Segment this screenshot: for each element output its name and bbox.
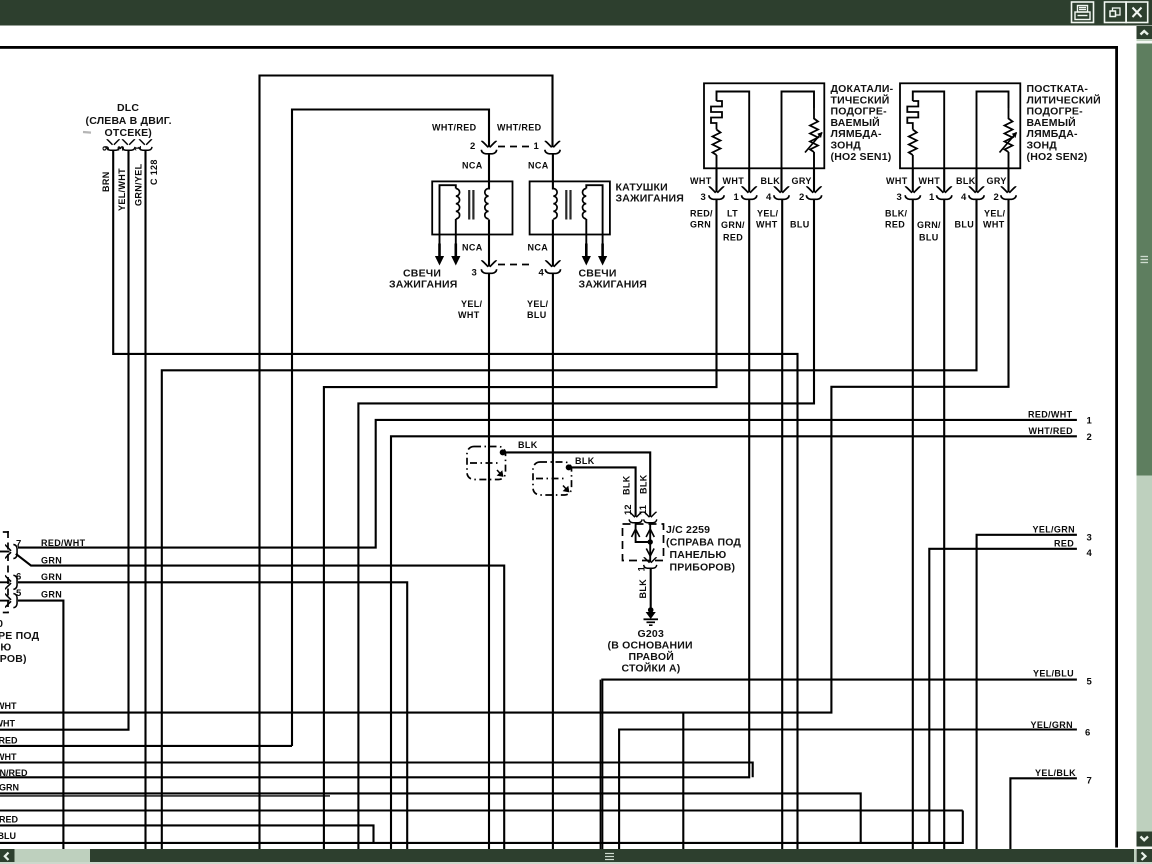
svg-text:G203: G203 [638, 628, 665, 640]
svg-text:BRN: BRN [101, 171, 111, 192]
coil2 core [565, 190, 567, 220]
svg-text:WHT: WHT [886, 176, 908, 186]
sensor2 cell top rail [977, 92, 1009, 169]
svg-text:LT: LT [727, 209, 738, 219]
coil2 HT lead left [582, 244, 591, 266]
wire: DLC pin3 YEL/WHT down to left-edge WHT wire [0, 151, 129, 730]
wire: top rail to coil2 pin1 [260, 76, 553, 850]
svg-text:ЗОНД: ЗОНД [831, 140, 862, 152]
svg-text:ПАНЕЛЬЮ: ПАНЕЛЬЮ [0, 642, 11, 654]
coil1 secondary loop with HT lead wires [440, 185, 456, 246]
wire BRN: DLC pin9 down, right, down at x=797.5 [113, 151, 797, 849]
svg-text:BLU: BLU [527, 310, 547, 320]
svg-text:BLU: BLU [919, 233, 939, 243]
ignition coil 2 (right, mirrored) [530, 181, 684, 266]
wire: vertical x683.3 from WHT wire down [682, 713, 684, 849]
svg-text:NCA: NCA [462, 161, 483, 171]
coil pin2 connector [481, 141, 496, 153]
wire 3 YEL/GRN right edge down at x976.6 [977, 535, 1077, 849]
wire: sensor1 pin3 RED/GRN left at y387 down at x323.9 [324, 200, 717, 849]
sensor1 pin1 connector [742, 187, 757, 199]
sensor2 heater zigzag resistor [909, 130, 917, 156]
pin11 connector [644, 512, 657, 522]
svg-text:(СЛЕВА В ДВИГ.: (СЛЕВА В ДВИГ. [86, 115, 172, 127]
wire BLK from shield1 to J/C2259 pin11 [503, 452, 651, 516]
svg-text:BLK: BLK [622, 475, 632, 495]
sensor1 pin wires below box [715, 168, 717, 192]
svg-text:RED/WHT: RED/WHT [1028, 410, 1073, 420]
svg-text:2: 2 [799, 192, 804, 203]
svg-text:ЗАЖИГАНИЯ: ЗАЖИГАНИЯ [616, 193, 685, 205]
sensor2 variable arrow [1000, 133, 1017, 153]
svg-text:4: 4 [766, 192, 772, 203]
svg-text:(В ЦЕНТРЕ ПОД: (В ЦЕНТРЕ ПОД [0, 630, 40, 642]
svg-text:BLK: BLK [956, 176, 976, 186]
svg-text:GRN: GRN [41, 572, 62, 582]
svg-text:6: 6 [1085, 728, 1090, 739]
spark plug labels and pins 3/4 [389, 243, 647, 321]
svg-text:WHT: WHT [919, 176, 941, 186]
svg-text:ДОКАТАЛИ-: ДОКАТАЛИ- [831, 83, 894, 95]
faint mark [83, 131, 91, 134]
svg-text:ЛЯМБДА-: ЛЯМБДА- [1027, 128, 1078, 140]
window title bar [0, 0, 1152, 26]
svg-text:BLK: BLK [761, 176, 781, 186]
BLK jumper wires [500, 449, 651, 516]
svg-text:DLC: DLC [117, 102, 139, 114]
wire: left-edge RED wire to x292 vertical [0, 745, 292, 747]
svg-text:5: 5 [1087, 677, 1093, 688]
sensor2 heater block resistor [907, 101, 918, 130]
sensor1 variable arrow [805, 133, 822, 153]
coil2 HT lead right [598, 244, 607, 266]
DLC pin 9 connector [107, 140, 120, 150]
pin 7 connector (rotated, wire exits right) [6, 544, 17, 558]
wire: left-edge GRN wire right to x860.7 down to bottom rail [0, 793, 861, 843]
sensor2 heater top rail [913, 92, 944, 169]
schematic page border top [0, 46, 1118, 49]
svg-text:3: 3 [701, 192, 706, 203]
internal wires: pin12 down, right to junction, pin11 down through, out bottom [636, 524, 651, 543]
coil pin3 connector [481, 261, 496, 273]
svg-text:ЗОНД: ЗОНД [1027, 140, 1058, 152]
shielded splice 1 (dash-dot box on YEL/WHT wire) [467, 440, 538, 480]
svg-text:(HO2 SEN1): (HO2 SEN1) [831, 151, 892, 163]
sensor1 heater zigzag resistor [713, 130, 721, 156]
svg-text:WHT/RED: WHT/RED [497, 123, 542, 133]
coil1 left winding [456, 189, 460, 219]
wire: DLC pin1 GRN/YEL down to bottom [144, 151, 146, 849]
DLC pin 3 connector [122, 140, 135, 150]
ground G203 [608, 607, 693, 674]
svg-text:ПРАВОЙ: ПРАВОЙ [629, 650, 674, 663]
wire: second thin line under GRN wire [0, 795, 330, 797]
svg-text:(HO2 SEN2): (HO2 SEN2) [1027, 151, 1088, 163]
shield2 inner dash [536, 478, 566, 480]
svg-text:WHT: WHT [723, 176, 745, 186]
sensor1 heater: pin3 up through resistors to top rail to pin1 [716, 155, 718, 168]
wire 6 YEL/GRN right edge down at x619.1 [619, 730, 1077, 850]
print button [1072, 2, 1094, 23]
svg-text:YEL/: YEL/ [461, 299, 483, 309]
svg-text:1: 1 [534, 141, 540, 152]
svg-text:1: 1 [637, 566, 648, 572]
svg-text:YEL/GRN: YEL/GRN [1033, 525, 1075, 535]
svg-text:NCA: NCA [462, 243, 483, 253]
svg-text:ОТСЕКЕ): ОТСЕКЕ) [105, 127, 152, 139]
coil2 secondary to box bottom [552, 220, 554, 267]
svg-text:2: 2 [1087, 432, 1092, 443]
svg-text:7: 7 [16, 539, 21, 550]
DLC connector (top left) [83, 102, 172, 211]
svg-text:YEL/BLU: YEL/BLU [1033, 669, 1074, 679]
svg-text:GRN: GRN [690, 220, 711, 230]
svg-text:YEL/: YEL/ [757, 209, 779, 219]
svg-text:GRN: GRN [0, 783, 19, 793]
wire: coil2 spark YEL/BLU down [552, 273, 554, 849]
svg-text:4: 4 [539, 268, 545, 279]
junction dot [648, 539, 653, 544]
wire: left pin6 GRN right to x407.2 down [18, 582, 407, 849]
svg-text:NCA: NCA [528, 161, 549, 171]
wire: sensor2 pin3 BLK/RED straight down [912, 200, 914, 849]
svg-text:GRY: GRY [987, 176, 1007, 186]
wire: companion vertical at x600.4 [599, 680, 601, 849]
svg-text:2: 2 [470, 141, 475, 152]
wire to ground [650, 569, 652, 609]
svg-text:4: 4 [961, 192, 967, 203]
wire pin1 connector to coil [552, 155, 554, 190]
up arrow on pin12 [632, 529, 640, 537]
svg-text:ПОСТКАТА-: ПОСТКАТА- [1027, 83, 1089, 95]
svg-text:GRN/YEL: GRN/YEL [134, 163, 144, 206]
wire: sensor1 pin2 BLU left at y403.4 down at x358.4 [358, 200, 814, 849]
svg-text:WHT: WHT [756, 220, 778, 230]
wire: sensor1 pin4 YEL/WHT straight down [781, 200, 783, 849]
sensor1 pin3 connector [709, 187, 724, 199]
svg-text:GRN: GRN [41, 556, 62, 566]
svg-text:GRY: GRY [792, 176, 812, 186]
sensor1 heater block resistor [711, 101, 722, 130]
svg-text:BLK: BLK [639, 474, 649, 494]
wire: left pin5 GRN right to x63.4 down [18, 601, 63, 849]
pin12 connector [629, 512, 642, 522]
pin 6 connector [6, 575, 17, 589]
sensor2 pin4 connector [969, 187, 984, 199]
sensor2 heater wire [912, 155, 914, 168]
svg-text:ПАНЕЛЬЮ: ПАНЕЛЬЮ [670, 549, 727, 561]
wire: sensor1 pin1 LT GRN/RED down to left-edge N/RED wire [0, 200, 749, 778]
down arrow inside box bottom [646, 549, 654, 557]
coil1 right winding [485, 189, 489, 219]
sensor1 pin2 connector [806, 187, 821, 199]
svg-text:ПОДОГРЕ-: ПОДОГРЕ- [1027, 106, 1084, 118]
svg-text:ПРИБОРОВ): ПРИБОРОВ) [670, 562, 736, 574]
bottom exit connector pin 1 [644, 558, 657, 568]
svg-text:2: 2 [994, 192, 999, 203]
coil pin4 connector [545, 261, 560, 273]
coil1 secondary to box bottom [488, 220, 490, 267]
svg-text:BLU: BLU [955, 220, 975, 230]
svg-text:RED/: RED/ [690, 209, 713, 219]
bottom scrollbar [0, 849, 1152, 864]
svg-text:WHT/RED: WHT/RED [1029, 426, 1074, 436]
coil2 box [530, 181, 610, 234]
svg-text:3: 3 [897, 192, 902, 203]
wire: left-edge RED wire down at x373.5 [0, 825, 374, 843]
shielded splice 2 (dash-dot box on YEL/BLU wire) [533, 456, 595, 495]
svg-text:YEL/BLK: YEL/BLK [1035, 768, 1076, 778]
svg-text:9: 9 [101, 146, 112, 151]
dashed connector boundary [7, 531, 9, 613]
wire 4 RED right edge down at x929.3 to bottom rail [929, 549, 1077, 843]
wire pin2 connector to coil [488, 155, 490, 190]
coil1 HT lead left [435, 244, 444, 266]
coil2 left winding (secondary wire) [553, 189, 557, 219]
coil2 secondary loop with HT lead wires [586, 185, 602, 246]
wire 2 WHT/RED right edge down at x391 [391, 436, 1077, 849]
wire: left-edge WHT wire to x752.7 down to N/RED wire [0, 763, 753, 778]
svg-text:3: 3 [116, 146, 127, 151]
svg-text:6: 6 [16, 572, 21, 583]
svg-text:RED: RED [0, 815, 19, 825]
sensor2 pin1 connector [937, 187, 952, 199]
restore button [1105, 2, 1127, 23]
svg-text:ЛИТИЧЕСКИЙ: ЛИТИЧЕСКИЙ [1027, 93, 1101, 106]
svg-text:WHT: WHT [690, 176, 712, 186]
svg-text:YEL/: YEL/ [984, 209, 1006, 219]
svg-text:ЗАЖИГАНИЯ: ЗАЖИГАНИЯ [389, 279, 458, 291]
sensor1 cell top rail [782, 92, 815, 169]
svg-text:GRN/: GRN/ [917, 220, 941, 230]
sensor2 pin wires below box [912, 168, 914, 192]
svg-text:ЗАЖИГАНИЯ: ЗАЖИГАНИЯ [579, 279, 648, 291]
svg-text:YEL/: YEL/ [527, 299, 549, 309]
shield1 corner arrow [497, 470, 503, 476]
ignition coil 1 (left) [432, 181, 512, 266]
oxygen sensor 2 (HO2 SEN2) [885, 83, 1101, 243]
svg-text:(СПРАВА ПОД: (СПРАВА ПОД [666, 537, 741, 549]
sensor2 cell zigzag [1005, 108, 1013, 152]
sensor1 box [704, 83, 824, 168]
wire: sensor2 pin1 GRN/BLU straight down [943, 200, 945, 849]
right scrollbar [1137, 26, 1152, 864]
svg-text:3: 3 [472, 268, 477, 279]
svg-text:1: 1 [133, 145, 144, 151]
shield1 inner dash [470, 462, 500, 464]
sensor2 cell wire [1008, 152, 1010, 168]
J/C dashed box [623, 524, 664, 561]
left edge connector J/C 2250 (pins 7 6 5) [0, 531, 86, 665]
svg-text:YEL/GRN: YEL/GRN [1031, 720, 1073, 730]
dashed link between pins 2 and 1 [498, 146, 530, 148]
svg-text:RED/WHT: RED/WHT [41, 538, 86, 548]
svg-text:5: 5 [16, 588, 22, 599]
svg-text:(В ОСНОВАНИИ: (В ОСНОВАНИИ [608, 640, 693, 652]
svg-text:RED: RED [0, 736, 18, 746]
close button [1126, 2, 1148, 23]
sensor1 heater top rail [717, 92, 750, 169]
svg-text:ПОДОГРЕ-: ПОДОГРЕ- [831, 106, 888, 118]
wire: left pin7 GRN diagonal and right to x504.2 down [16, 554, 504, 849]
ignition coil pins 2/1 connectors [432, 123, 560, 190]
svg-text:BLU: BLU [790, 220, 810, 230]
svg-text:ВАЕМЫЙ: ВАЕМЫЙ [831, 116, 880, 129]
svg-text:C 128: C 128 [149, 159, 159, 185]
junction dot shield1 [500, 449, 506, 455]
coil1 core [468, 190, 470, 220]
svg-text:RED: RED [885, 220, 905, 230]
sensor1 cell: pin2 up through variable resistor to rail to pin4 [813, 152, 815, 168]
coil pin1 connector [545, 141, 560, 153]
svg-text:WHT: WHT [0, 701, 17, 711]
junction dot shield2 [566, 464, 572, 470]
wire BLK from shield2 to J/C2259 pin12 [569, 467, 636, 516]
wire: coil1 spark YEL/WHT down [488, 273, 490, 849]
svg-text:GRN: GRN [41, 590, 62, 600]
pin 7 arrow stem [0, 551, 10, 553]
sensor1 pin4 connector [774, 187, 789, 199]
J/C 2259 junction connector [622, 474, 742, 608]
svg-text:J/C 2250: J/C 2250 [0, 618, 3, 630]
sensor2 box [900, 83, 1020, 168]
svg-text:BLK/: BLK/ [885, 209, 908, 219]
svg-text:YEL/WHT: YEL/WHT [117, 168, 127, 211]
svg-text:WHT: WHT [458, 310, 480, 320]
svg-text:ВАЕМЫЙ: ВАЕМЫЙ [1027, 116, 1076, 129]
sensor1 cell zigzag [810, 108, 818, 152]
wire 1 RED/WHT right edge to left connector pin7 [18, 420, 1077, 548]
DLC pin 1 connector [139, 140, 152, 150]
svg-text:BLK: BLK [518, 440, 538, 450]
svg-text:ПРИБОРОВ): ПРИБОРОВ) [0, 653, 27, 665]
wire: sensor2 pin4 BLU left at y370 down at x161.8 [162, 200, 977, 849]
svg-text:BLK: BLK [638, 579, 648, 599]
wire: y810.5 rail to x962.8 [0, 809, 963, 811]
wire 5 YEL/BLU right edge down at x602 [602, 680, 1077, 849]
pin 5 connector [6, 594, 17, 608]
wire: second rail to coil1 pin2 [292, 110, 489, 747]
coil1 box [432, 181, 512, 234]
svg-text:1: 1 [1087, 416, 1093, 427]
svg-text:3: 3 [1087, 533, 1092, 544]
wire 7 YEL/BLK right edge down at x1010.4 [1010, 778, 1077, 849]
right edge numbered wires [1028, 410, 1093, 787]
sensor2 pin2 connector [1001, 187, 1016, 199]
svg-text:1: 1 [929, 192, 935, 203]
svg-text:GRN/RED: GRN/RED [0, 768, 28, 778]
svg-text:GRN/: GRN/ [721, 220, 745, 230]
svg-text:RED: RED [1054, 539, 1074, 549]
wire: left-edge BLU bottom rail to x962.8 up to y810.5 [0, 811, 963, 843]
pin 5 arrow stem [0, 600, 10, 602]
svg-text:4: 4 [1087, 548, 1093, 559]
svg-text:WHT/RED: WHT/RED [432, 123, 477, 133]
pin 6 arrow stem [0, 581, 10, 583]
coil2 right winding [583, 189, 587, 219]
svg-text:1: 1 [734, 192, 740, 203]
svg-text:BLK: BLK [575, 456, 595, 466]
svg-text:RED: RED [723, 233, 743, 243]
svg-text:WHT: WHT [983, 220, 1005, 230]
svg-text:7: 7 [1087, 776, 1092, 787]
up arrow on pin11 [646, 529, 654, 537]
svg-text:СТОЙКИ А): СТОЙКИ А) [622, 662, 681, 675]
svg-text:J/C 2259: J/C 2259 [666, 524, 710, 536]
coil1 HT lead right [451, 244, 460, 266]
wire: sensor2 pin2 YEL/WHT left at y387 down at x831.4 to left-edge WHT wire y713 [0, 200, 1009, 713]
svg-text:ЛЯМБДА-: ЛЯМБДА- [831, 128, 882, 140]
svg-text:NCA: NCA [528, 243, 549, 253]
shield2 corner arrow [563, 486, 569, 492]
sensor2 pin3 connector [905, 187, 920, 199]
svg-text:BLU: BLU [0, 831, 16, 841]
svg-text:WHT: WHT [0, 719, 15, 729]
schematic page border right [1115, 46, 1118, 848]
svg-text:12: 12 [623, 504, 634, 515]
svg-text:ТИЧЕСКИЙ: ТИЧЕСКИЙ [831, 93, 890, 106]
left edge wire labels (bottom) [0, 701, 28, 841]
oxygen sensor 1 (HO2 SEN1) [690, 83, 894, 243]
dashed link between pins 3 and 4 [498, 264, 534, 266]
svg-text:WHT: WHT [0, 752, 17, 762]
